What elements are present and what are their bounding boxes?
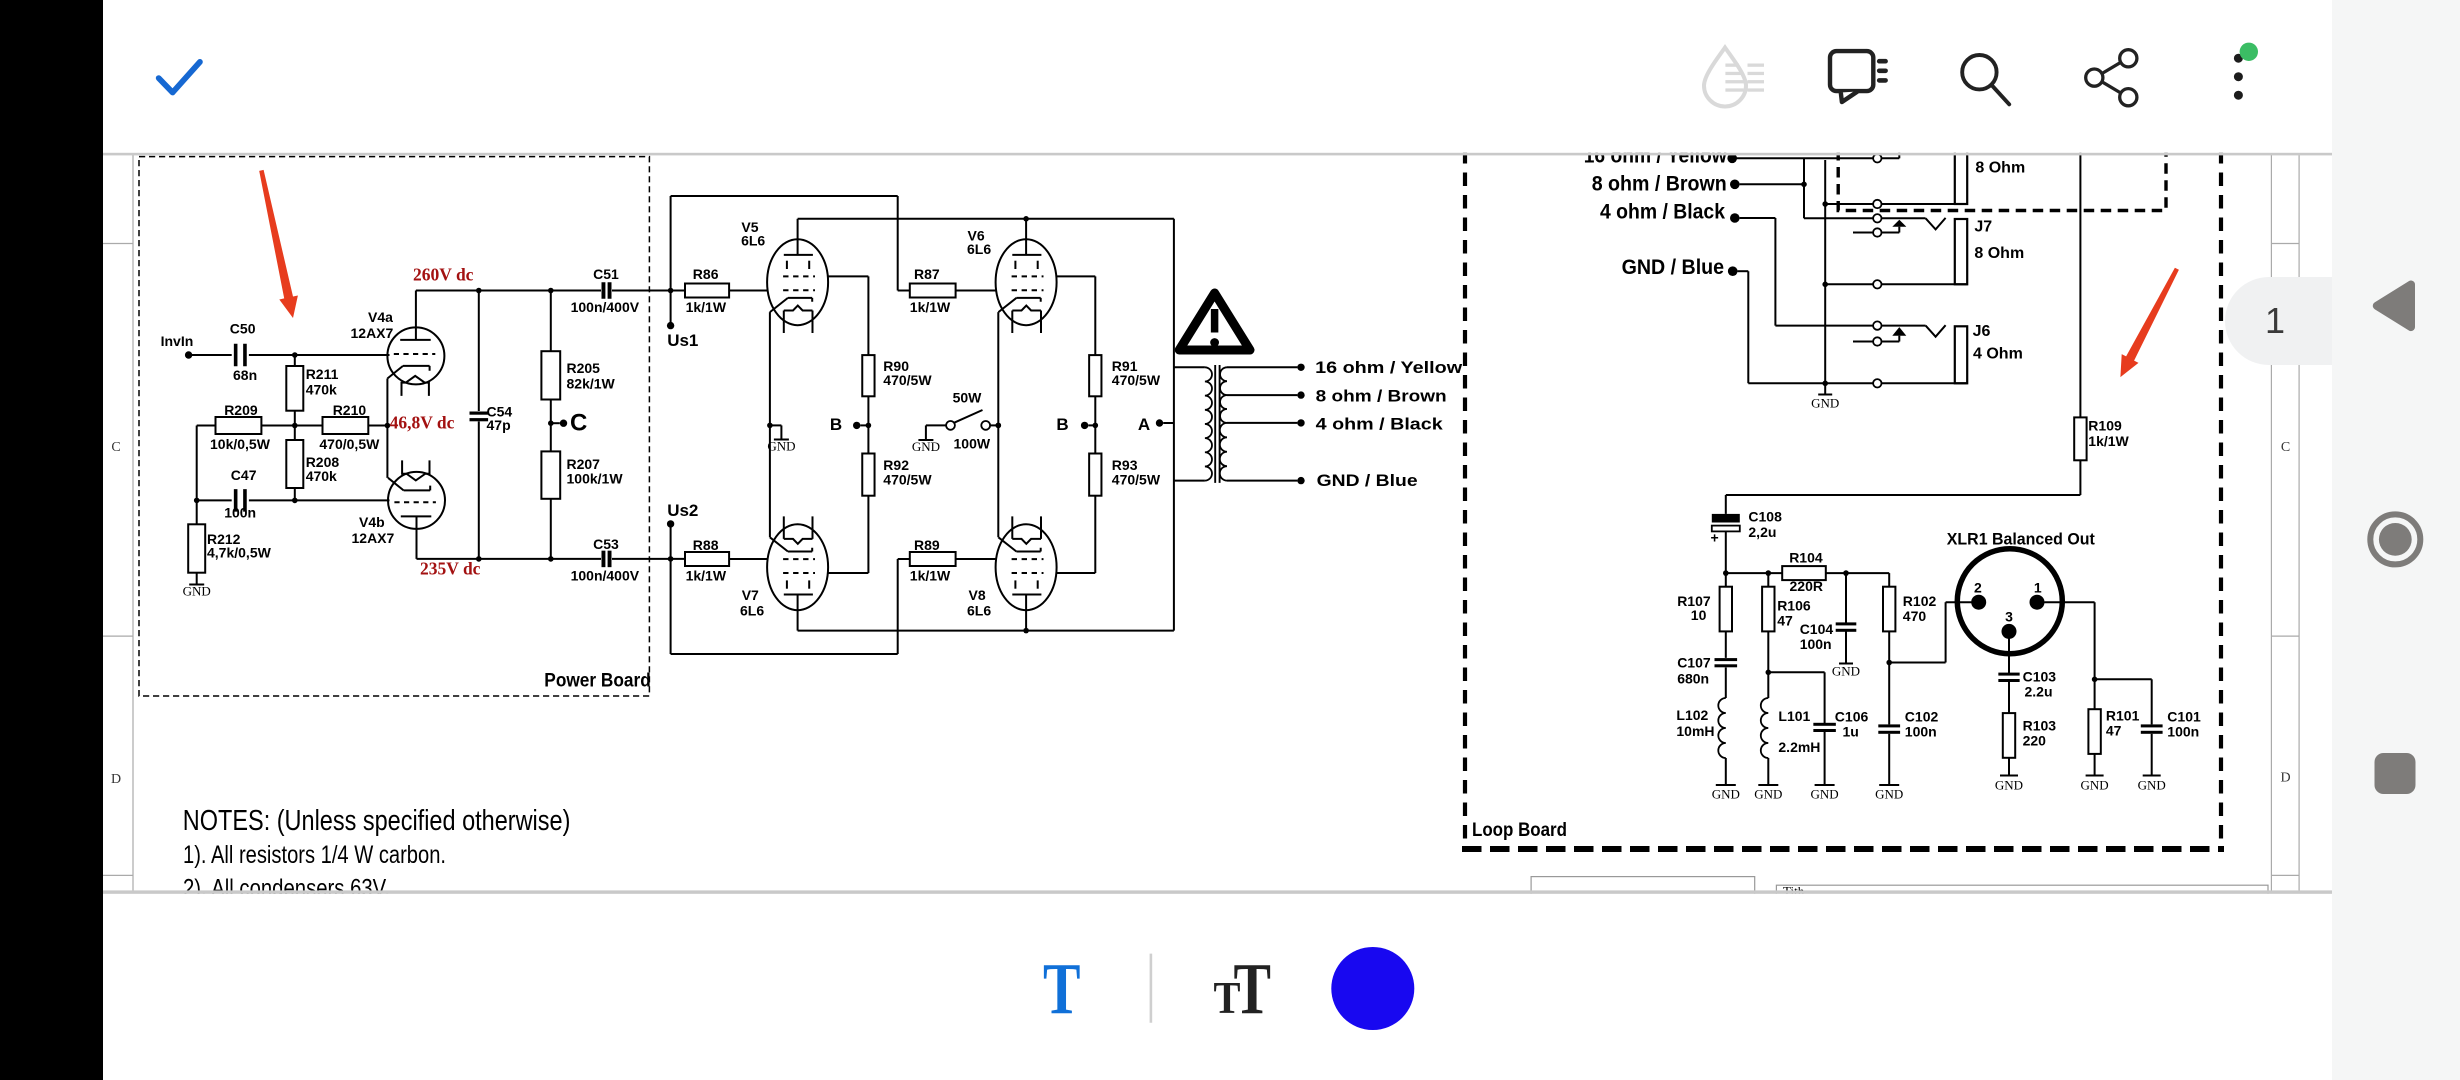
svg-text:470/5W: 470/5W: [883, 471, 932, 487]
svg-text:R205: R205: [567, 360, 601, 376]
svg-text:GND: GND: [1995, 778, 2023, 793]
svg-text:68n: 68n: [233, 367, 257, 383]
svg-text:470k: 470k: [306, 468, 337, 484]
svg-text:GND: GND: [1754, 787, 1782, 802]
svg-text:R87: R87: [914, 266, 940, 282]
svg-text:C101: C101: [2167, 709, 2201, 725]
svg-text:C102: C102: [1905, 709, 1939, 725]
svg-text:1: 1: [2034, 580, 2042, 596]
svg-text:8 ohm / Brown: 8 ohm / Brown: [1592, 172, 1727, 195]
svg-text:GND: GND: [1811, 396, 1839, 411]
svg-text:R101: R101: [2106, 708, 2140, 724]
svg-text:1: 1: [2265, 300, 2285, 341]
svg-text:2.2u: 2.2u: [2025, 684, 2053, 700]
svg-text:47: 47: [2106, 723, 2122, 739]
svg-text:Power Board: Power Board: [544, 670, 651, 691]
svg-text:GND / Blue: GND / Blue: [1317, 471, 1418, 490]
svg-text:C104: C104: [1800, 621, 1834, 637]
svg-text:1k/1W: 1k/1W: [2088, 433, 2129, 449]
svg-text:R103: R103: [2023, 718, 2057, 734]
svg-text:470: 470: [1903, 608, 1927, 624]
svg-text:R86: R86: [693, 266, 719, 282]
svg-text:C50: C50: [230, 320, 256, 336]
svg-text:R106: R106: [1777, 598, 1811, 614]
svg-text:10k/0,5W: 10k/0,5W: [210, 436, 271, 452]
svg-text:10: 10: [1691, 607, 1707, 623]
svg-text:V8: V8: [969, 587, 986, 603]
svg-text:12AX7: 12AX7: [351, 325, 394, 341]
svg-text:GND: GND: [2081, 778, 2109, 793]
svg-text:46,8V dc: 46,8V dc: [390, 413, 455, 433]
svg-text:+: +: [1711, 530, 1719, 546]
svg-text:1). All resistors 1/4 W carbon: 1). All resistors 1/4 W carbon.: [183, 841, 446, 869]
svg-text:100n: 100n: [1800, 636, 1832, 652]
svg-text:1k/1W: 1k/1W: [686, 568, 727, 584]
svg-text:6L6: 6L6: [967, 603, 991, 619]
svg-text:V7: V7: [742, 587, 759, 603]
svg-text:220: 220: [2023, 733, 2047, 749]
svg-text:A: A: [1138, 415, 1150, 434]
svg-text:10mH: 10mH: [1676, 723, 1714, 739]
svg-text:R209: R209: [224, 402, 258, 418]
svg-text:100n/400V: 100n/400V: [571, 299, 640, 315]
svg-text:100W: 100W: [954, 436, 991, 452]
svg-text:82k/1W: 82k/1W: [567, 375, 616, 391]
svg-text:4 ohm / Black: 4 ohm / Black: [1600, 201, 1725, 224]
svg-text:R89: R89: [914, 537, 940, 553]
svg-text:GND: GND: [1875, 787, 1903, 802]
svg-text:GND / Blue: GND / Blue: [1622, 256, 1725, 279]
svg-text:470/5W: 470/5W: [883, 372, 932, 388]
svg-text:C: C: [570, 410, 587, 437]
svg-text:2,2u: 2,2u: [1748, 524, 1776, 540]
svg-text:C: C: [2281, 440, 2290, 455]
svg-text:Us1: Us1: [667, 331, 698, 350]
svg-text:C107: C107: [1677, 654, 1711, 670]
svg-text:GND: GND: [2138, 778, 2166, 793]
svg-text:Loop Board: Loop Board: [1472, 820, 1567, 841]
svg-text:100k/1W: 100k/1W: [567, 471, 624, 487]
svg-text:2: 2: [1974, 580, 1982, 596]
svg-text:J6: J6: [1973, 323, 1991, 340]
svg-text:C51: C51: [593, 266, 619, 282]
svg-text:50W: 50W: [953, 390, 983, 406]
svg-text:B: B: [1056, 415, 1068, 434]
svg-text:12AX7: 12AX7: [352, 530, 395, 546]
svg-text:GND: GND: [767, 439, 795, 454]
svg-text:8 ohm / Brown: 8 ohm / Brown: [1316, 386, 1447, 405]
svg-text:R109: R109: [2088, 418, 2122, 434]
svg-text:6L6: 6L6: [741, 232, 765, 248]
svg-text:100n: 100n: [224, 505, 256, 521]
svg-text:1k/1W: 1k/1W: [686, 299, 727, 315]
svg-text:C: C: [111, 440, 120, 455]
svg-text:B: B: [830, 415, 842, 434]
svg-text:4 Ohm: 4 Ohm: [1973, 346, 2023, 363]
svg-text:J7: J7: [1974, 219, 1992, 236]
svg-text:L101: L101: [1778, 708, 1810, 724]
svg-text:100n/400V: 100n/400V: [571, 568, 640, 584]
svg-text:3: 3: [2005, 609, 2013, 625]
svg-text:L102: L102: [1676, 707, 1708, 723]
svg-text:GND: GND: [183, 584, 211, 599]
svg-text:C47: C47: [231, 467, 257, 483]
svg-text:470/5W: 470/5W: [1112, 471, 1161, 487]
svg-text:C106: C106: [1835, 709, 1869, 725]
svg-text:V4a: V4a: [368, 309, 393, 325]
svg-text:47: 47: [1777, 613, 1793, 629]
svg-text:4 ohm / Black: 4 ohm / Black: [1316, 414, 1444, 433]
svg-text:4,7k/0,5W: 4,7k/0,5W: [207, 545, 272, 561]
svg-text:T: T: [1234, 948, 1272, 1029]
svg-text:2.2mH: 2.2mH: [1778, 739, 1820, 755]
svg-text:260V dc: 260V dc: [413, 265, 474, 285]
svg-text:R210: R210: [333, 402, 367, 418]
svg-text:GND: GND: [912, 439, 940, 454]
svg-text:C103: C103: [2023, 668, 2057, 684]
svg-text:6L6: 6L6: [967, 241, 991, 257]
svg-text:6L6: 6L6: [740, 603, 764, 619]
svg-text:Us2: Us2: [667, 501, 698, 520]
svg-text:470/0,5W: 470/0,5W: [319, 436, 380, 452]
svg-text:1u: 1u: [1843, 724, 1859, 740]
svg-text:680n: 680n: [1677, 670, 1709, 686]
svg-text:R207: R207: [567, 456, 601, 472]
svg-text:470k: 470k: [306, 381, 337, 397]
svg-text:R102: R102: [1903, 593, 1937, 609]
svg-text:R104: R104: [1789, 550, 1823, 566]
svg-text:100n: 100n: [1905, 724, 1937, 740]
svg-text:GND: GND: [1712, 787, 1740, 802]
svg-text:GND: GND: [1811, 787, 1839, 802]
svg-text:GND: GND: [1832, 664, 1860, 679]
svg-text:T: T: [1043, 948, 1081, 1029]
svg-text:D: D: [2280, 771, 2290, 786]
svg-text:R88: R88: [693, 537, 719, 553]
svg-text:V4b: V4b: [359, 514, 385, 530]
svg-text:235V dc: 235V dc: [420, 559, 481, 579]
svg-text:C108: C108: [1748, 508, 1782, 524]
svg-text:8 Ohm: 8 Ohm: [1974, 245, 2024, 262]
svg-text:R211: R211: [306, 366, 339, 382]
svg-text:470/5W: 470/5W: [1112, 372, 1161, 388]
svg-text:InvIn: InvIn: [161, 333, 194, 349]
svg-text:1k/1W: 1k/1W: [910, 568, 951, 584]
svg-text:NOTES: (Unless specified other: NOTES: (Unless specified otherwise): [183, 805, 571, 837]
svg-text:XLR1 Balanced Out: XLR1 Balanced Out: [1947, 530, 2095, 549]
svg-text:D: D: [111, 772, 121, 787]
svg-text:47p: 47p: [487, 417, 511, 433]
svg-text:100n: 100n: [2167, 724, 2199, 740]
svg-text:8 Ohm: 8 Ohm: [1975, 160, 2025, 177]
svg-text:16 ohm / Yellow: 16 ohm / Yellow: [1315, 358, 1463, 377]
svg-text:C53: C53: [593, 536, 619, 552]
svg-text:220R: 220R: [1790, 578, 1823, 594]
svg-text:1k/1W: 1k/1W: [910, 299, 951, 315]
